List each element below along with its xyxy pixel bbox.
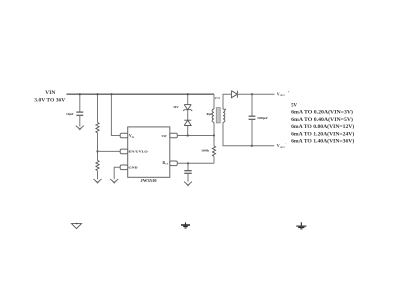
svg-text:100k: 100k bbox=[201, 149, 209, 153]
node junction Vout+cap bbox=[251, 93, 253, 95]
resistor R3 100k bbox=[212, 136, 215, 164]
ground (C1) bbox=[76, 126, 84, 130]
svg-text:10µF: 10µF bbox=[66, 112, 74, 116]
wire EN/UVLO bbox=[98, 150, 121, 152]
svg-text:2:1: 2:1 bbox=[215, 96, 221, 100]
wire RCS bbox=[177, 162, 214, 164]
node junction diode-SW bbox=[187, 134, 189, 136]
node junction RCS-C2 bbox=[187, 162, 189, 164]
wire Vout+ bbox=[237, 93, 274, 95]
capacitor C1 10uF bbox=[66, 94, 83, 126]
transformer phase dot bbox=[225, 109, 226, 110]
node junction rail-R1 bbox=[96, 93, 98, 95]
ground legend triangle bbox=[72, 224, 82, 229]
transformer T1 core bbox=[216, 108, 220, 123]
svg-text:GND: GND bbox=[129, 166, 139, 170]
wire SW bbox=[177, 135, 214, 137]
node junction R1-R2-EN bbox=[96, 150, 98, 152]
transformer T1 primary lower lead bbox=[213, 122, 215, 135]
diode D2 bbox=[184, 120, 191, 125]
svg-text:JW3510: JW3510 bbox=[140, 179, 156, 183]
wire VIN pin bbox=[111, 94, 120, 135]
diode Z1 zener 36V bbox=[183, 105, 192, 111]
wire zener-diode bbox=[187, 110, 189, 121]
diode D1 rectifier bbox=[231, 91, 237, 98]
transformer T1 secondary bottom lead bbox=[223, 122, 274, 146]
svg-text:+: + bbox=[288, 90, 290, 94]
transformer T1 primary lead bbox=[213, 94, 215, 109]
capacitor C2 (RCS) bbox=[184, 163, 191, 181]
svg-text:3.0V TO 36V: 3.0V TO 36V bbox=[34, 98, 65, 103]
svg-text:6mA TO 1.20A(VIN=24V): 6mA TO 1.20A(VIN=24V) bbox=[291, 132, 355, 137]
node junction SW-primary-100k bbox=[213, 134, 215, 136]
transformer T1 secondary top lead bbox=[223, 94, 231, 109]
pin EN/UVLO stub bbox=[120, 149, 128, 154]
svg-text:6mA TO 0.80A(VIN=12V): 6mA TO 0.80A(VIN=12V) bbox=[291, 125, 355, 130]
ground (GND pin) bbox=[110, 179, 118, 183]
svg-text:VOUT: VOUT bbox=[277, 91, 285, 97]
node junction Vout-cap bbox=[251, 145, 253, 147]
ground (divider) bbox=[94, 179, 102, 183]
node VIN input rail bbox=[67, 93, 215, 95]
svg-text:VOUT: VOUT bbox=[277, 143, 285, 149]
svg-text:36V: 36V bbox=[173, 105, 179, 109]
svg-text:6mA TO 0.20A(VIN=3V): 6mA TO 0.20A(VIN=3V) bbox=[291, 111, 353, 116]
capacitor C3 100uF bbox=[249, 94, 256, 146]
svg-text:6mA TO 1.40A(VIN=36V): 6mA TO 1.40A(VIN=36V) bbox=[291, 140, 355, 145]
transformer T1 primary winding 40uH bbox=[212, 109, 214, 122]
ground legend symbol 2 bbox=[181, 222, 190, 228]
node junction rail-diode bbox=[187, 93, 189, 95]
svg-text:VIN: VIN bbox=[45, 91, 56, 96]
node junction rail-VINpin bbox=[110, 93, 112, 95]
node junction rail-C1 bbox=[79, 93, 81, 95]
svg-text:5V: 5V bbox=[291, 104, 297, 109]
pin V_IN stub bbox=[120, 133, 128, 138]
svg-text:-: - bbox=[285, 142, 286, 146]
wire diode-SW bbox=[187, 126, 189, 136]
svg-text:100µF: 100µF bbox=[257, 116, 268, 120]
resistor R1 (upper divider) bbox=[96, 94, 99, 151]
ground legend symbol 3 bbox=[296, 222, 306, 229]
diode chain: wire from rail bbox=[187, 94, 189, 104]
svg-text:40µH: 40µH bbox=[206, 112, 213, 116]
transformer T1 secondary winding bbox=[223, 109, 225, 122]
svg-text:6mA TO 0.40A(VIN=5V): 6mA TO 0.40A(VIN=5V) bbox=[291, 118, 353, 123]
resistor R2 (lower divider) bbox=[96, 151, 99, 179]
pin SW stub bbox=[170, 133, 178, 138]
pin GND stub bbox=[120, 165, 128, 170]
op-amp U1 JW3510 body bbox=[128, 127, 170, 177]
svg-text:EN/UVLO: EN/UVLO bbox=[129, 149, 149, 153]
svg-text:SW: SW bbox=[162, 134, 168, 138]
pin RCS stub bbox=[170, 161, 178, 166]
wire GND pin bbox=[114, 167, 120, 179]
ground (C2) bbox=[184, 182, 192, 186]
